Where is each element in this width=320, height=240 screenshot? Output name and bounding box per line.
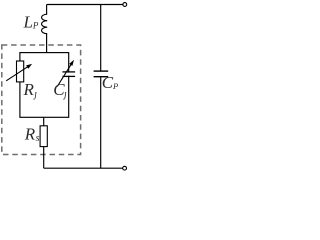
wire bottom horizontal [44,167,123,169]
capacitor CP [94,70,109,72]
wire top horizontal [47,4,123,6]
wire CP top lead [100,5,102,71]
wire inductor top lead [46,5,48,15]
resistor Rj (variable) [17,61,24,82]
node terminal bottom-right [123,166,127,170]
svg-text:R: R [24,125,36,144]
wire CP bottom lead [100,77,102,168]
svg-text:P: P [32,21,39,31]
svg-text:L: L [23,13,33,32]
capacitor Cj (variable) [65,73,73,76]
wire Rs top lead [43,117,45,126]
svg-text:s: s [36,133,40,144]
wire parallel loop rectangle [20,53,69,118]
svg-text:R: R [23,80,35,99]
arrow of Rj [6,67,28,81]
dashed enclosure box [2,45,81,155]
inductor LP coil [42,14,48,34]
arrow of Cj [57,64,71,87]
svg-text:P: P [112,81,118,91]
wire Rs bottom lead [43,147,45,169]
svg-text:C: C [102,73,114,92]
resistor Rs [40,126,47,147]
node terminal top-right [123,3,127,7]
wire inductor bottom lead [46,34,48,53]
